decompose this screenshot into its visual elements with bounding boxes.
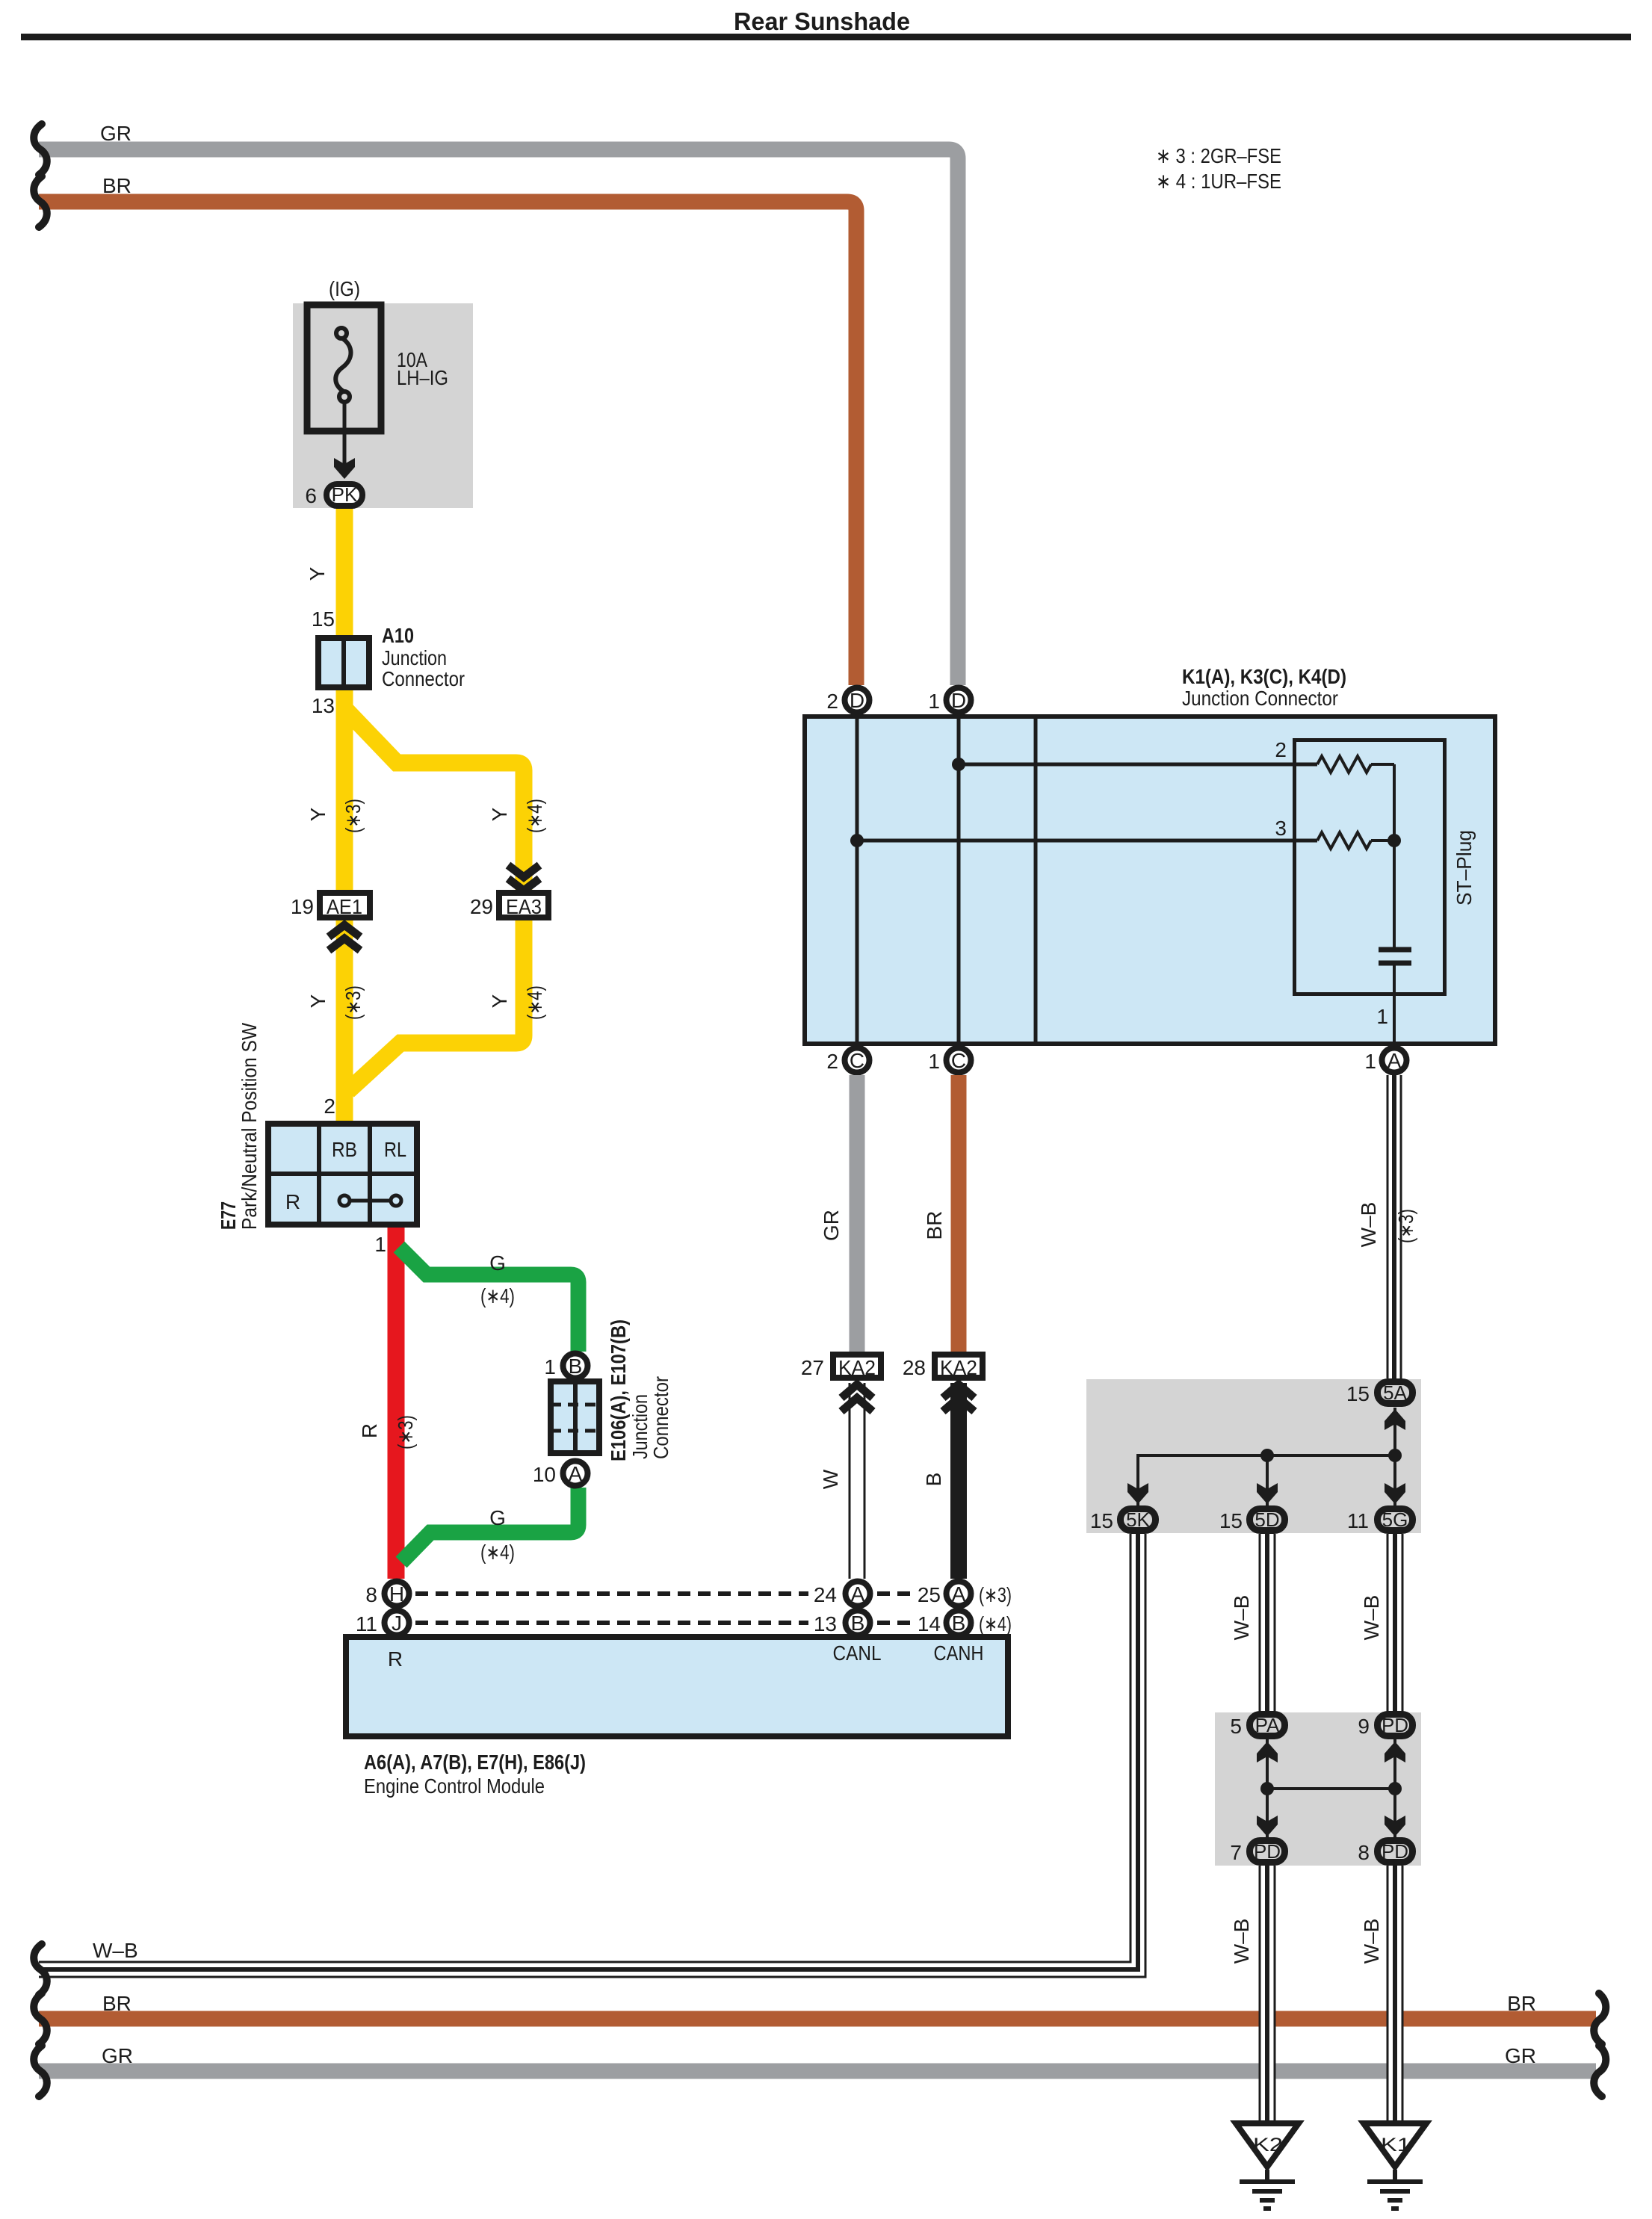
svg-text:E77: E77 <box>217 1201 240 1230</box>
svg-text:6: 6 <box>305 484 317 507</box>
svg-text:Y: Y <box>306 807 330 821</box>
svg-text:(∗4): (∗4) <box>979 1612 1012 1635</box>
svg-text:G: G <box>489 1251 506 1275</box>
svg-text:11: 11 <box>356 1612 377 1635</box>
svg-text:GR: GR <box>100 122 132 145</box>
svg-text:GR: GR <box>820 1210 843 1241</box>
svg-text:W–B: W–B <box>1360 1919 1383 1964</box>
svg-text:BR: BR <box>102 174 132 197</box>
svg-text:D: D <box>850 689 864 712</box>
svg-text:K2: K2 <box>1253 2135 1283 2155</box>
svg-text:Connector: Connector <box>649 1376 672 1459</box>
svg-text:EA3: EA3 <box>506 895 542 918</box>
svg-text:A: A <box>851 1582 865 1606</box>
svg-text:RB: RB <box>332 1138 357 1161</box>
svg-text:1: 1 <box>1364 1050 1376 1073</box>
svg-text:A: A <box>569 1462 583 1485</box>
svg-text:15: 15 <box>1346 1382 1370 1405</box>
svg-text:A: A <box>952 1582 966 1606</box>
svg-text:H: H <box>389 1582 404 1606</box>
svg-text:9: 9 <box>1358 1715 1370 1738</box>
svg-text:13: 13 <box>814 1612 837 1635</box>
svg-text:Park/Neutral Position SW: Park/Neutral Position SW <box>238 1022 261 1230</box>
svg-text:Y: Y <box>488 807 511 821</box>
svg-text:K1(A), K3(C), K4(D): K1(A), K3(C), K4(D) <box>1182 665 1346 688</box>
svg-text:K1: K1 <box>1381 2135 1411 2155</box>
svg-text:13: 13 <box>312 694 335 717</box>
svg-text:15: 15 <box>1090 1509 1113 1532</box>
svg-text:1: 1 <box>374 1233 386 1256</box>
svg-text:11: 11 <box>1347 1509 1369 1532</box>
svg-text:5K: 5K <box>1126 1508 1150 1531</box>
svg-text:B: B <box>569 1355 583 1378</box>
svg-text:R: R <box>358 1423 381 1438</box>
svg-text:KA2: KA2 <box>838 1356 876 1379</box>
svg-text:D: D <box>951 689 966 712</box>
svg-text:R: R <box>285 1190 300 1213</box>
svg-text:PD: PD <box>1254 1840 1281 1863</box>
svg-text:B: B <box>851 1612 865 1635</box>
svg-text:G: G <box>489 1506 506 1529</box>
svg-text:24: 24 <box>814 1583 837 1606</box>
svg-text:Y: Y <box>488 994 511 1008</box>
svg-text:28: 28 <box>903 1356 926 1379</box>
svg-text:W–B: W–B <box>1230 1919 1253 1964</box>
svg-text:W–B: W–B <box>1230 1595 1253 1641</box>
svg-text:LH–IG: LH–IG <box>397 366 448 389</box>
svg-text:1: 1 <box>1376 1005 1388 1028</box>
svg-text:PA: PA <box>1255 1714 1280 1736</box>
svg-text:(∗4): (∗4) <box>523 985 546 1020</box>
svg-text:A: A <box>1388 1049 1402 1072</box>
svg-text:2: 2 <box>324 1095 335 1118</box>
svg-text:R: R <box>388 1647 403 1671</box>
svg-text:Junction: Junction <box>628 1394 652 1459</box>
svg-text:W–B: W–B <box>1360 1595 1383 1641</box>
svg-text:C: C <box>951 1049 966 1072</box>
svg-text:15: 15 <box>1219 1509 1243 1532</box>
svg-text:1: 1 <box>928 1050 940 1073</box>
svg-text:(∗3): (∗3) <box>341 985 365 1020</box>
svg-text:∗ 3 : 2GR–FSE: ∗ 3 : 2GR–FSE <box>1156 144 1281 167</box>
svg-text:8: 8 <box>365 1583 377 1606</box>
svg-text:5G: 5G <box>1382 1508 1408 1531</box>
svg-text:10: 10 <box>533 1463 556 1486</box>
svg-text:GR: GR <box>102 2044 133 2067</box>
svg-text:A6(A), A7(B), E7(H), E86(J): A6(A), A7(B), E7(H), E86(J) <box>364 1751 586 1774</box>
svg-text:W: W <box>819 1469 842 1489</box>
svg-text:5: 5 <box>1230 1715 1242 1738</box>
svg-text:15: 15 <box>312 607 335 631</box>
svg-text:2: 2 <box>826 1050 838 1073</box>
svg-text:(∗4): (∗4) <box>480 1541 515 1564</box>
svg-text:PD: PD <box>1382 1714 1408 1736</box>
svg-text:(∗3): (∗3) <box>394 1415 417 1449</box>
svg-text:Rear Sunshade: Rear Sunshade <box>734 7 910 35</box>
svg-text:(∗4): (∗4) <box>523 799 546 833</box>
svg-text:C: C <box>850 1049 864 1072</box>
svg-text:Engine Control Module: Engine Control Module <box>364 1774 545 1798</box>
svg-text:A10: A10 <box>382 624 414 647</box>
svg-text:25: 25 <box>918 1583 941 1606</box>
svg-text:BR: BR <box>102 1992 132 2015</box>
svg-text:(∗3): (∗3) <box>1394 1209 1417 1243</box>
svg-text:27: 27 <box>801 1356 824 1379</box>
svg-text:Junction: Junction <box>382 646 447 669</box>
svg-text:KA2: KA2 <box>940 1356 977 1379</box>
svg-text:W–B: W–B <box>93 1939 138 1962</box>
svg-text:CANL: CANL <box>833 1641 882 1665</box>
svg-text:(IG): (IG) <box>329 277 360 300</box>
svg-text:ST–Plug: ST–Plug <box>1453 830 1476 906</box>
svg-text:1: 1 <box>544 1355 556 1378</box>
svg-text:Y: Y <box>306 994 330 1008</box>
svg-text:BR: BR <box>1507 1992 1536 2015</box>
svg-text:W–B: W–B <box>1357 1202 1380 1248</box>
svg-text:3: 3 <box>1275 817 1287 840</box>
svg-text:PK: PK <box>332 483 358 506</box>
svg-text:5D: 5D <box>1255 1508 1279 1531</box>
svg-text:Connector: Connector <box>382 667 465 690</box>
svg-text:B: B <box>952 1612 966 1635</box>
svg-text:Y: Y <box>306 566 329 581</box>
svg-text:BR: BR <box>923 1211 946 1240</box>
svg-text:2: 2 <box>826 690 838 713</box>
svg-text:AE1: AE1 <box>327 895 362 918</box>
svg-text:(∗3): (∗3) <box>979 1583 1012 1606</box>
svg-text:2: 2 <box>1275 738 1287 761</box>
svg-text:RL: RL <box>384 1138 406 1161</box>
svg-text:GR: GR <box>1505 2044 1536 2067</box>
svg-text:19: 19 <box>291 895 314 918</box>
svg-text:1: 1 <box>928 690 940 713</box>
svg-text:PD: PD <box>1382 1840 1408 1863</box>
svg-text:CANH: CANH <box>934 1641 984 1665</box>
svg-text:8: 8 <box>1358 1841 1370 1864</box>
svg-text:B: B <box>922 1473 945 1487</box>
svg-text:(∗3): (∗3) <box>341 799 365 833</box>
svg-text:(∗4): (∗4) <box>480 1284 515 1307</box>
svg-text:29: 29 <box>470 895 493 918</box>
svg-text:J: J <box>392 1612 402 1635</box>
svg-text:Junction Connector: Junction Connector <box>1182 687 1338 710</box>
svg-text:7: 7 <box>1230 1841 1242 1864</box>
svg-text:E106(A), E107(B): E106(A), E107(B) <box>607 1319 630 1461</box>
svg-text:5A: 5A <box>1383 1381 1407 1404</box>
svg-text:14: 14 <box>918 1612 941 1635</box>
svg-text:∗ 4 : 1UR–FSE: ∗ 4 : 1UR–FSE <box>1156 170 1281 193</box>
